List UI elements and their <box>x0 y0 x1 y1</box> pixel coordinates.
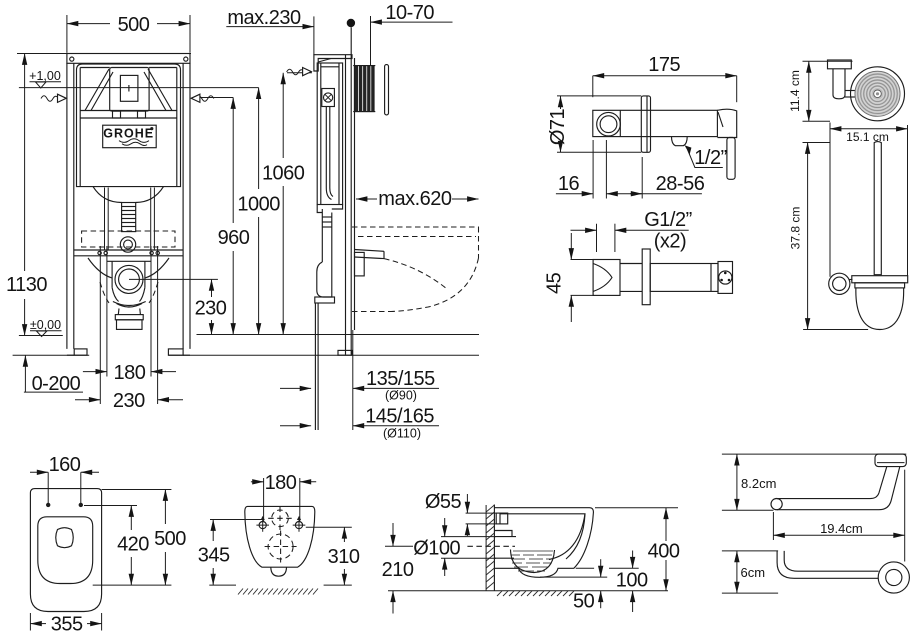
wall ring <box>829 273 850 294</box>
side outlet elbow <box>317 262 332 297</box>
tank ledge lines <box>80 110 177 112</box>
right rail <box>182 63 184 349</box>
dashed bowl top lines <box>352 226 479 228</box>
actuator block <box>354 66 374 112</box>
solid flush pipe stub <box>355 250 385 259</box>
waste outlet circles <box>115 265 143 293</box>
dim 500 <box>164 490 166 525</box>
svg-text:(x2): (x2) <box>654 231 686 253</box>
top wall bracket <box>314 55 352 71</box>
left rail <box>66 63 68 349</box>
drain centerline dashed <box>467 545 515 547</box>
end cap box <box>718 262 733 294</box>
dim 310 <box>343 527 345 542</box>
svg-text:8.2cm: 8.2cm <box>741 476 776 491</box>
cup plate <box>852 276 908 283</box>
bowl outer <box>30 489 101 612</box>
svg-text:500: 500 <box>154 528 186 550</box>
dim 37.8 cm <box>803 142 831 144</box>
dim 1000 <box>258 88 260 189</box>
svg-text:1060: 1060 <box>262 163 305 185</box>
aerator <box>672 137 688 146</box>
wall ext below floor <box>352 330 354 430</box>
svg-text:6cm: 6cm <box>741 565 766 580</box>
flush pipe threaded <box>122 203 136 232</box>
elbow tube <box>620 263 642 265</box>
second holder top ref <box>722 550 778 552</box>
dim 6cm <box>736 551 738 593</box>
svg-text:500: 500 <box>118 14 150 36</box>
ref sump level line <box>540 576 607 578</box>
fill tube <box>325 107 327 189</box>
side foot <box>338 350 352 355</box>
drain hole dashed <box>268 534 293 559</box>
threaded pipe <box>650 264 718 292</box>
dashed bowl under curve <box>391 258 479 312</box>
flange side <box>642 249 650 305</box>
svg-text:50: 50 <box>573 591 595 613</box>
faucet body tube <box>593 110 718 136</box>
GROHE logo box <box>103 125 157 148</box>
dim Ø100 <box>441 536 496 538</box>
flush hole dashed <box>272 510 289 527</box>
inner bowl curve <box>549 514 585 560</box>
dim 19.4cm <box>772 512 774 540</box>
svg-text:±0,00: ±0,00 <box>30 318 61 332</box>
dim 500 ext lines <box>66 15 68 53</box>
side flush pipe <box>321 209 323 262</box>
flush button <box>120 75 137 101</box>
bowl outline <box>494 508 593 578</box>
svg-text:400: 400 <box>648 541 680 563</box>
dim 210 <box>385 545 413 547</box>
tank inner wall right <box>176 68 178 187</box>
ref line 310 top <box>306 526 352 528</box>
dim 180 <box>83 371 107 373</box>
bracket cap <box>828 60 852 69</box>
wall plate <box>875 454 906 467</box>
dim 960 <box>195 97 233 99</box>
svg-text:420: 420 <box>117 534 149 556</box>
svg-text:1/2”: 1/2” <box>694 147 726 169</box>
bowl outline <box>245 506 315 567</box>
bowl inner opening <box>38 517 93 584</box>
wall hatch <box>493 505 495 591</box>
rim inner line <box>500 514 585 559</box>
left foot <box>74 349 87 355</box>
svg-text:1000: 1000 <box>237 194 280 216</box>
ground ref lines <box>209 584 236 586</box>
zero level line right <box>197 334 480 336</box>
ground hatch <box>238 589 318 595</box>
dim 15.1 cm <box>830 128 908 130</box>
top ref line <box>722 453 906 455</box>
detached flush plate <box>385 65 389 115</box>
ref line holes <box>84 505 137 507</box>
bracket post <box>833 69 845 99</box>
svg-text:0-200: 0-200 <box>32 373 81 395</box>
dim 11.4 cm <box>803 60 853 62</box>
inspection bolt <box>322 89 335 107</box>
svg-text:11.4 cm: 11.4 cm <box>788 70 802 112</box>
wall axis dot <box>347 19 355 27</box>
outlet taper <box>117 309 120 315</box>
step bracket <box>494 531 512 537</box>
svg-text:15.1 cm: 15.1 cm <box>846 130 889 144</box>
svg-text:1130: 1130 <box>6 274 47 296</box>
wall finish arrow left <box>41 96 58 102</box>
svg-text:100: 100 <box>616 570 648 592</box>
dim 420 <box>130 506 132 531</box>
svg-text:Ø100: Ø100 <box>413 538 460 560</box>
ref line top <box>102 489 172 491</box>
dim 8.2cm <box>736 454 738 510</box>
fixing hole L <box>259 522 266 529</box>
svg-text:Ø55: Ø55 <box>425 491 462 513</box>
ref line 345 top <box>210 519 262 521</box>
outlet body <box>117 320 143 330</box>
pan dashed cutout <box>82 231 175 247</box>
hanger bolt lines <box>99 246 101 404</box>
glass cup <box>856 288 904 330</box>
dim 0-200 <box>24 355 26 392</box>
svg-text:max.620: max.620 <box>378 188 452 210</box>
elbow union body <box>593 260 620 296</box>
dim 135/155 <box>280 387 311 389</box>
svg-text:+1,00: +1,00 <box>29 69 61 83</box>
svg-text:230: 230 <box>195 298 227 320</box>
union nut circle <box>597 112 621 136</box>
plate foot right <box>138 111 146 118</box>
handle lever rod <box>727 138 735 180</box>
dim 1060 <box>287 72 312 74</box>
svg-text:37.8 cm: 37.8 cm <box>789 207 803 250</box>
tank shoulder slants left <box>85 69 109 111</box>
tank bottom step <box>317 205 342 213</box>
flush connector stub <box>496 513 508 524</box>
floor hatch <box>497 591 574 596</box>
svg-text:230: 230 <box>113 390 145 412</box>
pan arcs <box>88 258 169 278</box>
dim 230 outlet height, ref line <box>129 278 218 280</box>
dim max.620 <box>356 198 377 200</box>
dim 16 <box>592 140 594 199</box>
dim 145/165 <box>280 425 311 427</box>
svg-text:19.4cm: 19.4cm <box>820 521 863 536</box>
side outlet flange <box>315 297 335 303</box>
svg-text:180: 180 <box>265 472 297 494</box>
slab line left <box>13 354 90 356</box>
svg-text:345: 345 <box>198 545 230 567</box>
dim 345 <box>212 520 214 542</box>
svg-text:960: 960 <box>218 227 250 249</box>
holder 2 wall ring <box>878 562 909 593</box>
svg-text:175: 175 <box>648 54 680 76</box>
svg-text:G1/2”: G1/2” <box>644 209 692 231</box>
svg-text:(Ø90): (Ø90) <box>385 389 417 403</box>
brush rod <box>874 142 881 275</box>
dim 175 <box>593 75 737 77</box>
tank inner top lines <box>80 67 110 69</box>
svg-text:max.230: max.230 <box>227 7 301 29</box>
wall finish arrow right <box>197 96 214 102</box>
hanger rods tank to crossbar <box>104 188 106 251</box>
svg-text:16: 16 <box>558 173 580 195</box>
dim 160 <box>47 472 49 506</box>
dim 28-56 <box>641 157 643 199</box>
tank inner wall left <box>79 68 81 187</box>
fixing hole R <box>295 522 302 529</box>
ref bowl top right <box>595 507 678 509</box>
bracket arm <box>845 90 856 92</box>
dim 230 bottom <box>75 399 100 401</box>
svg-text:45: 45 <box>544 272 566 294</box>
dim 500 <box>67 23 110 25</box>
wall rail lines <box>345 55 347 355</box>
plate foot left <box>113 111 121 118</box>
sump inner curve <box>511 550 555 573</box>
outlet flange <box>115 315 143 320</box>
seat hole R <box>79 503 83 507</box>
dim G1/2 (x2) <box>596 224 598 252</box>
water hatching <box>511 551 553 571</box>
wall flange <box>641 96 650 152</box>
dim 50 <box>600 559 602 577</box>
dim 400 <box>665 508 667 541</box>
svg-text:(Ø110): (Ø110) <box>383 427 421 441</box>
zero level line left <box>19 335 63 337</box>
bolt marks right <box>150 251 153 254</box>
svg-text:310: 310 <box>328 546 360 568</box>
tank side box <box>317 63 342 205</box>
ext line of side frame face <box>313 16 315 54</box>
drain bump <box>271 567 287 576</box>
handle head <box>717 109 736 137</box>
holder arm <box>777 467 900 510</box>
svg-text:GROHE: GROHE <box>103 126 154 140</box>
svg-text:210: 210 <box>382 559 414 581</box>
flush inlet blob <box>56 528 74 548</box>
arm end cap <box>771 499 782 510</box>
outlet dish <box>113 302 146 308</box>
svg-text:180: 180 <box>113 362 145 384</box>
cistern tank outline <box>77 64 181 187</box>
floor line long <box>388 590 668 592</box>
frame outer top bar <box>67 54 190 64</box>
wall squiggle arrow <box>287 69 304 75</box>
ref bowl bottom ext <box>609 567 639 569</box>
roll textured disc <box>855 71 900 116</box>
slab line right <box>168 354 479 356</box>
ext lines <box>829 123 831 277</box>
outlet housing <box>107 260 151 262</box>
tank funnel bottom <box>93 187 164 203</box>
right foot <box>168 349 183 355</box>
dim 1130 <box>24 54 26 272</box>
corner screw L <box>70 57 74 61</box>
dim 100 <box>632 551 634 569</box>
ref line bottom <box>93 584 172 586</box>
dashed bowl inner curve <box>384 259 447 289</box>
dim 45 <box>571 259 595 261</box>
drain pipe lines <box>494 536 516 538</box>
svg-text:135/155: 135/155 <box>366 368 435 390</box>
dashed bowl front edge <box>478 227 480 258</box>
holder 2 tube <box>777 551 878 578</box>
svg-text:28-56: 28-56 <box>656 173 705 195</box>
dim 180 <box>263 478 265 521</box>
flush bend connector circles <box>120 237 135 252</box>
tank shoulder slants right <box>148 69 172 111</box>
svg-text:Ø71: Ø71 <box>547 108 569 145</box>
cross bar <box>74 249 183 251</box>
dim Ø71 <box>557 95 641 97</box>
water level line 1000 <box>19 87 259 89</box>
svg-text:145/165: 145/165 <box>365 406 434 428</box>
roll outer ring <box>851 67 905 121</box>
dashed bowl bottom <box>352 311 391 313</box>
behind-wall bend box <box>355 252 365 276</box>
dim 355 <box>29 613 31 631</box>
svg-text:355: 355 <box>51 614 83 636</box>
flush plate <box>110 68 149 112</box>
ceiling line <box>17 53 191 55</box>
bolt marks left <box>98 251 101 254</box>
svg-text:10-70: 10-70 <box>385 2 434 24</box>
seat hole L <box>46 503 50 507</box>
svg-text:160: 160 <box>49 454 81 476</box>
drain drop pipe <box>314 303 316 430</box>
corner screw R <box>184 57 188 61</box>
